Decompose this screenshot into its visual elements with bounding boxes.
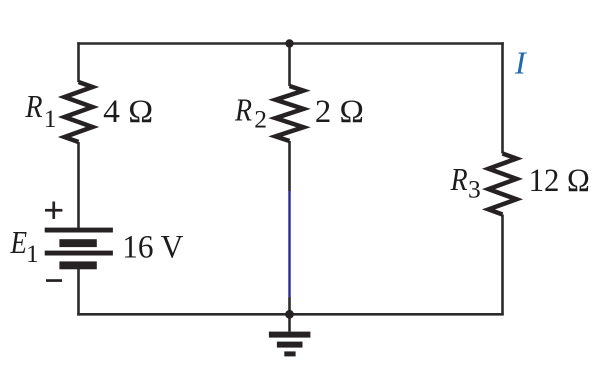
wire middle blue segment: [288, 191, 290, 299]
resistor R2: [276, 86, 304, 141]
ground bar 1: [269, 332, 311, 338]
wire middle above bottom node (black part): [288, 298, 291, 315]
battery E1 plate long lower: [45, 251, 113, 256]
wire right bottom (R3 to bottom wire): [501, 215, 504, 315]
svg-text:1: 1: [26, 239, 39, 268]
wire bottom horizontal: [77, 313, 504, 316]
wire left bottom (E1 to bottom wire): [77, 269, 80, 316]
ground bar 2: [277, 342, 303, 348]
ground bar 3: [284, 351, 295, 356]
wire left top (node a to R1): [77, 42, 80, 82]
svg-text:1: 1: [44, 104, 57, 133]
resistor R3: [489, 154, 517, 215]
svg-text:3: 3: [468, 175, 481, 204]
svg-text:R: R: [234, 92, 252, 128]
node B junction dot (bottom): [285, 310, 294, 319]
wire top horizontal: [77, 42, 504, 45]
svg-text:I: I: [514, 45, 527, 81]
svg-text:E: E: [10, 224, 28, 260]
svg-text:R: R: [25, 88, 43, 124]
plus sign of E1: [45, 209, 62, 212]
battery E1 plate short upper: [59, 239, 96, 247]
svg-text:4 Ω: 4 Ω: [103, 94, 153, 130]
svg-text:2: 2: [254, 105, 267, 134]
battery E1 plate long top: [45, 228, 113, 233]
wire middle top (top node to R2): [288, 44, 291, 87]
resistor R1: [65, 82, 93, 142]
wire middle below R2 (black part): [288, 141, 291, 191]
minus sign of E1: [46, 279, 62, 282]
svg-text:12 Ω: 12 Ω: [529, 163, 590, 199]
wire right top (top wire to R3): [501, 42, 504, 153]
svg-text:R: R: [450, 161, 468, 197]
wire left middle (R1 to E1): [77, 142, 80, 229]
battery E1 plate short bottom: [59, 261, 96, 269]
ground stub wire: [288, 314, 291, 331]
svg-text:16 V: 16 V: [122, 229, 183, 265]
node A junction dot (top): [285, 39, 293, 47]
svg-text:2 Ω: 2 Ω: [315, 94, 364, 130]
